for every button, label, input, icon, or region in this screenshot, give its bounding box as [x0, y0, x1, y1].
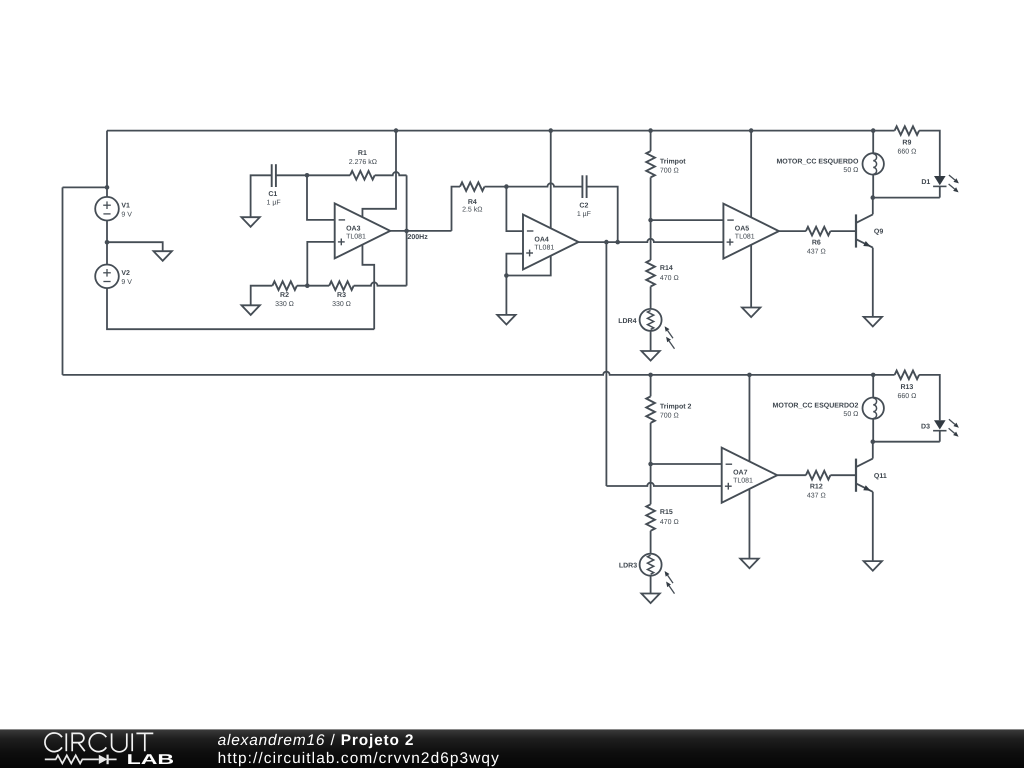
svg-text:660 Ω: 660 Ω: [897, 149, 916, 156]
svg-text:Q11: Q11: [874, 473, 887, 480]
wire trimpot bottom lead: [650, 177, 652, 220]
op-amp OA4 TL081: [523, 215, 579, 270]
wire OA5 V- ground stem: [750, 245, 752, 307]
resistor R2: [272, 281, 297, 308]
wire top rail right segment to D1: [919, 131, 940, 176]
wire R4 row to C2 with hop: [506, 183, 582, 186]
svg-text:200Hz: 200Hz: [408, 234, 429, 241]
svg-text:470 Ω: 470 Ω: [660, 519, 679, 526]
wire trimpot top lead: [650, 131, 652, 152]
wire R15 to LDR3: [650, 531, 652, 554]
svg-text:50 Ω: 50 Ω: [843, 411, 858, 418]
wire OA7 output lead: [777, 474, 806, 476]
wire motor2 bottom stem: [872, 419, 874, 442]
wire C1 to inverting node: [276, 174, 307, 176]
wire R12 to Q11 base: [830, 474, 856, 476]
wire OA4 non-inverting input: [506, 254, 523, 276]
wire second +9V rail: [63, 372, 895, 375]
wire OA5 output lead: [779, 230, 806, 232]
svg-text:V1: V1: [121, 203, 130, 210]
capacitor C1: [267, 164, 281, 206]
node C1/R1/OA3- junction: [305, 173, 310, 178]
node V1/V2 midpoint: [105, 240, 110, 245]
node rail/OA3 V+ junction: [394, 128, 399, 133]
wire OA4 output to OA5 noninverting: [579, 239, 724, 242]
svg-text:330 Ω: 330 Ω: [275, 301, 294, 308]
svg-text:R14: R14: [660, 265, 673, 272]
node 200Hz label: [408, 234, 429, 241]
wire output up to R4 row: [452, 187, 461, 231]
motor MOTOR_CC ESQUERDO: [776, 153, 883, 174]
wire R1 left lead: [307, 174, 350, 176]
svg-text:D1: D1: [921, 179, 930, 186]
svg-text:LAB: LAB: [127, 752, 175, 768]
node trimpot/R14 junction: [648, 218, 653, 223]
resistor R1: [349, 150, 377, 180]
ground below OA5: [742, 308, 760, 318]
wire R4 right lead: [485, 186, 507, 188]
wire V1 top stem: [106, 131, 108, 197]
wire motor1 top stem: [872, 131, 874, 154]
ground below Q9: [864, 317, 882, 327]
wire OA3 output row: [390, 230, 451, 232]
svg-text:470 Ω: 470 Ω: [660, 275, 679, 282]
transistor Q11: [856, 459, 887, 492]
trimpot Trimpot 2 700: [646, 396, 691, 422]
svg-text:700 Ω: 700 Ω: [660, 168, 679, 175]
wire junction to OA5 inverting: [651, 219, 724, 221]
ground below C1: [241, 217, 259, 227]
wire C1 left lead + ground stem: [251, 175, 272, 217]
wire LDR4 ground stem: [650, 331, 652, 351]
wire OA3 V+ pin from rail: [362, 131, 396, 218]
wire OA5 V+ pin: [750, 131, 752, 218]
wire +9V top rail: [107, 130, 895, 132]
svg-text:TL081: TL081: [733, 478, 753, 485]
svg-text:Q9: Q9: [874, 229, 883, 236]
resistor R9: [895, 126, 919, 155]
svg-text:R6: R6: [812, 239, 821, 246]
ground below R2: [242, 305, 260, 315]
svg-text:9 V: 9 V: [121, 279, 132, 286]
wire Q9 collector: [872, 198, 874, 215]
transistor Q9: [856, 214, 883, 247]
svg-text:660 Ω: 660 Ω: [897, 393, 916, 400]
svg-text:9 V: 9 V: [121, 211, 132, 218]
resistor R13: [895, 371, 919, 400]
svg-text:V2: V2: [121, 270, 130, 277]
wire collector node to D3: [873, 441, 940, 443]
wire R1 feedback vertical: [406, 175, 408, 285]
trimpot Trimpot 700: [646, 151, 686, 177]
svg-text:alexandrem16 / Projeto 2: alexandrem16 / Projeto 2: [218, 732, 415, 749]
op-amp OA7 TL081: [722, 448, 778, 503]
wire trimpot2 bottom lead: [650, 423, 652, 464]
node rail/OA5 V+ junction: [749, 128, 754, 133]
wire OA4 inverting input: [506, 187, 523, 232]
svg-text:50 Ω: 50 Ω: [843, 167, 858, 174]
svg-text:TL081: TL081: [735, 234, 755, 241]
wire OA3 inverting input: [307, 175, 335, 220]
motor MOTOR_CC ESQUERDO2: [773, 398, 884, 419]
wire R15 top lead: [650, 464, 652, 504]
wire R3 right lead with hop: [354, 282, 407, 285]
CircuitLab logo: [45, 733, 174, 768]
op-amp OA5 TL081: [723, 204, 779, 259]
node R2/R3/OA3+ junction: [305, 283, 310, 288]
wire left vertical rail: [62, 187, 64, 375]
wire LDR3 ground stem: [650, 576, 652, 594]
wire trimpot2 top lead: [650, 375, 652, 397]
svg-text:MOTOR_CC ESQUERDO: MOTOR_CC ESQUERDO: [776, 158, 858, 165]
wire OA4 V- pin: [506, 256, 550, 276]
svg-text:TL081: TL081: [346, 233, 366, 240]
resistor R4: [460, 182, 485, 213]
footer url: [218, 750, 500, 767]
wire OA3 V- pin to -9V rail: [362, 245, 374, 329]
svg-text:Trimpot 2: Trimpot 2: [660, 403, 692, 411]
wire motor2 top stem: [872, 375, 874, 398]
node V1+ junction: [105, 185, 110, 190]
wire R1 right lead with hop: [375, 172, 407, 175]
svg-text:D3: D3: [921, 423, 930, 430]
wire R2-R3 junction lead: [297, 285, 329, 287]
wire OA4 ground stem: [505, 276, 507, 315]
node rail/trimpot junction: [648, 128, 653, 133]
svg-text:OA4: OA4: [534, 236, 549, 243]
capacitor C2: [577, 175, 591, 218]
node R4/C2/OA4- junction: [504, 184, 509, 189]
node rail2/trimpot2 junction: [648, 373, 653, 378]
resistor R3: [329, 281, 354, 308]
svg-text:2.276 kΩ: 2.276 kΩ: [349, 158, 377, 166]
ground below LDR3: [641, 594, 659, 604]
svg-text:R12: R12: [810, 484, 823, 491]
footer bar: [0, 729, 1024, 768]
wire signal branch down to OA7: [606, 242, 721, 486]
svg-text:R2: R2: [280, 292, 289, 299]
node rail/OA4 V+ junction: [548, 128, 553, 133]
node output/C2 junction: [615, 240, 620, 245]
svg-text:OA3: OA3: [346, 225, 361, 232]
svg-text:R9: R9: [902, 140, 911, 147]
wire V1 plus branch to left rail: [63, 186, 108, 188]
wire Q11 emitter stem: [872, 492, 874, 561]
photoresistor LDR3: [619, 554, 675, 594]
svg-text:R3: R3: [337, 292, 346, 299]
wire V2 bottom rail (-9V): [107, 288, 374, 329]
node rail2/OA7 V+ junction: [747, 373, 752, 378]
node trimpot2/R15 junction: [648, 462, 653, 467]
svg-text:R1: R1: [358, 150, 367, 157]
wire OA7 V- ground stem: [748, 489, 750, 558]
voltage source V2: [95, 265, 132, 289]
wire OA3 non-inverting input: [307, 242, 334, 286]
wire R6 to Q9 base: [830, 230, 856, 232]
wire OA7 V+ pin: [748, 375, 750, 462]
svg-text:2.5 kΩ: 2.5 kΩ: [462, 206, 482, 214]
svg-text:R13: R13: [900, 384, 913, 391]
ground below LDR4: [641, 351, 659, 361]
resistor R12: [806, 471, 830, 500]
wire R14 to LDR4: [650, 287, 652, 309]
svg-text:OA7: OA7: [733, 470, 748, 477]
wire R2 left lead + ground stem: [251, 286, 273, 306]
wire R14 top lead: [650, 220, 652, 260]
node rail2/motor2 junction: [871, 373, 876, 378]
ground at V1/V2 midpoint: [154, 251, 172, 261]
svg-text:R15: R15: [660, 509, 673, 516]
footer title alexandrem16 / Projeto 2: [218, 732, 415, 749]
svg-text:437 Ω: 437 Ω: [807, 248, 826, 255]
resistor R14: [646, 260, 678, 286]
svg-text:OA5: OA5: [735, 226, 750, 233]
photoresistor LDR4: [618, 309, 674, 349]
node feedback/output junction: [404, 229, 409, 234]
wire C2 right to output: [587, 187, 618, 243]
wire junction to OA7 inverting: [651, 463, 722, 465]
svg-text:1 µF: 1 µF: [577, 211, 591, 218]
node motor/D1/collector junction: [871, 195, 876, 200]
svg-text:LDR4: LDR4: [618, 318, 636, 325]
ground below OA7: [740, 559, 758, 569]
wire Q11 collector: [872, 442, 874, 459]
svg-text:437 Ω: 437 Ω: [807, 493, 826, 500]
svg-text:TL081: TL081: [534, 245, 554, 252]
svg-text:330 Ω: 330 Ω: [332, 301, 351, 308]
svg-text:700 Ω: 700 Ω: [660, 413, 679, 420]
svg-text:http://circuitlab.com/crvvn2d6: http://circuitlab.com/crvvn2d6p3wqy: [218, 750, 500, 767]
LED D1: [921, 175, 959, 198]
svg-text:Trimpot: Trimpot: [660, 157, 686, 165]
wire rail2 right segment to D3: [919, 375, 940, 420]
resistor R6: [806, 227, 830, 256]
node OA4 ground junction: [504, 273, 509, 278]
resistor R15: [646, 504, 678, 531]
wire midpoint ground tap: [107, 242, 163, 251]
node motor2/D3/collector junction: [871, 439, 876, 444]
svg-text:1 µF: 1 µF: [267, 200, 281, 207]
svg-text:C1: C1: [268, 191, 277, 198]
node output/branch junction: [604, 240, 609, 245]
node rail/motor junction: [871, 128, 876, 133]
wire V1-V2: [106, 221, 108, 265]
wire motor1 bottom stem: [872, 175, 874, 198]
wire OA4 V+ pin: [550, 131, 552, 228]
svg-text:C2: C2: [579, 203, 588, 210]
voltage source V1: [95, 197, 132, 221]
wire Q9 emitter stem: [872, 248, 874, 317]
op-amp OA3 TL081: [335, 203, 391, 258]
svg-text:MOTOR_CC ESQUERDO2: MOTOR_CC ESQUERDO2: [773, 403, 859, 410]
LED D3: [921, 419, 959, 441]
svg-text:R4: R4: [468, 199, 477, 206]
ground below OA4: [497, 315, 515, 325]
svg-text:LDR3: LDR3: [619, 563, 637, 570]
wire collector node to D1: [873, 197, 940, 199]
ground below Q11: [864, 561, 882, 571]
